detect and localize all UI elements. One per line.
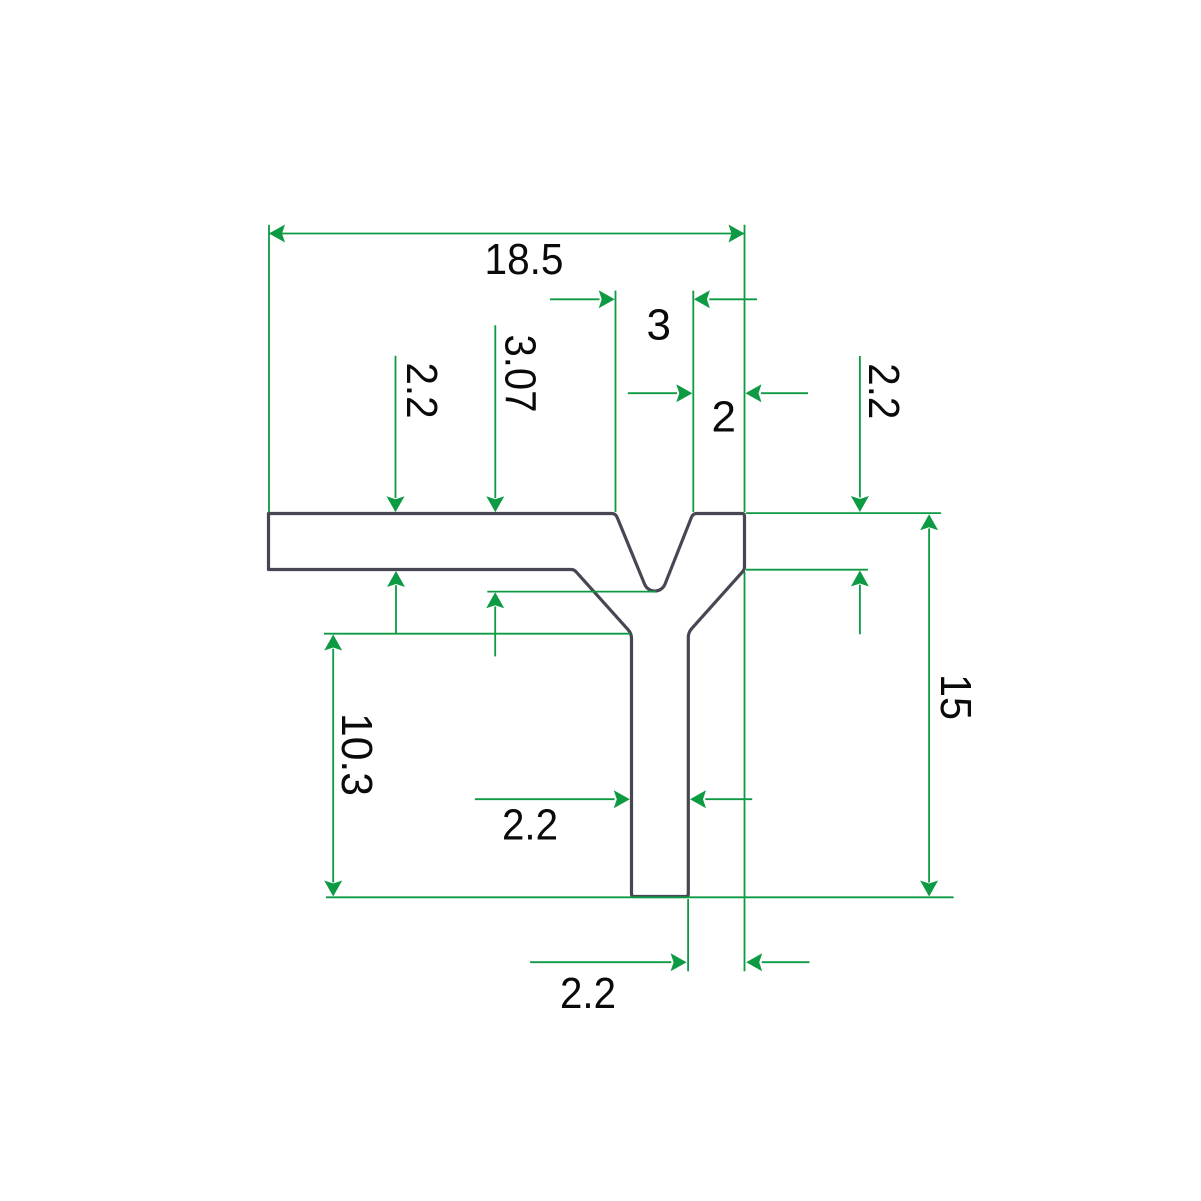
dimension 3 (V-notch opening) <box>550 290 757 349</box>
dimension 15 (overall height) <box>920 514 980 896</box>
dimension 10.3 (stem length) <box>324 635 381 897</box>
dimension 18.5 (overall width) <box>269 225 745 285</box>
svg-text:15: 15 <box>931 674 980 720</box>
profile outline (T-extrusion cross-section) <box>269 514 745 897</box>
extension line right x=744.5 lower (to bottom 2.2) <box>744 572 746 972</box>
svg-text:3: 3 <box>647 301 671 350</box>
extension line left x=269 (18.5) <box>268 225 270 512</box>
dimension 2.2 (flange thickness, left) <box>387 356 447 634</box>
extension line y=897.3 bottom (10.3 / 15 bottom) <box>326 896 954 898</box>
3.07 lower arrow (points up to V bottom) <box>486 592 504 608</box>
dimension 3.07 (V-notch depth) <box>486 325 544 656</box>
svg-text:2.2: 2.2 <box>502 801 558 850</box>
svg-text:10.3: 10.3 <box>332 713 381 796</box>
dimension 2.2 (bottom offset) <box>530 953 809 1018</box>
dimension 2 (top-right tab width) <box>628 384 808 441</box>
extension line y=633.7 (stem shoulder, 10.3 top) <box>324 633 631 635</box>
svg-text:2.2: 2.2 <box>859 363 908 419</box>
dimension 2.2 (stem width) <box>475 790 752 849</box>
extension line y=591.6 (V-notch bottom, 3.07) <box>487 591 656 593</box>
svg-text:18.5: 18.5 <box>485 235 564 284</box>
extension line x=615.5 (V-notch left, dim 3) <box>615 291 617 512</box>
extension line y=569.7 right horizontal (2.2 right lower) <box>746 569 868 571</box>
dimension 2.2 (flange thickness, right) <box>851 356 908 634</box>
svg-text:3.07: 3.07 <box>496 335 545 413</box>
extension line x=688.1 (stem right, bottom 2.2) <box>687 899 689 971</box>
2.2 left lower arrow (points up to flange bottom) <box>387 571 405 587</box>
2.2 right lower arrow (points up) <box>851 571 869 587</box>
svg-text:2.2: 2.2 <box>560 969 616 1018</box>
svg-text:2: 2 <box>712 393 736 442</box>
svg-text:2.2: 2.2 <box>397 363 446 419</box>
extension line x=693.3 (V-notch right, dims 3 and 2) <box>692 291 694 512</box>
extension line y=513.1 right horizontal (15 top / 2.2 right) <box>746 512 941 514</box>
extension line right x=744.5 upper (18.5) <box>744 225 746 512</box>
